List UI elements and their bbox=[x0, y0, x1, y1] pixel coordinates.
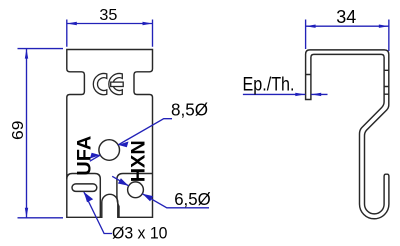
leader 6.5 NW tail bbox=[112, 176, 128, 186]
svg-text:Ep./Th.: Ep./Th. bbox=[243, 75, 295, 96]
left foot bend outline bbox=[67, 174, 101, 218]
8.5 leader arrow NE bbox=[118, 142, 128, 148]
side view hook profile bbox=[306, 50, 389, 219]
Ep./Th. arrow left bbox=[295, 93, 305, 96]
Ep./Th. arrow right bbox=[311, 93, 321, 96]
wall tick marks bbox=[306, 70, 389, 94]
dim 69 ext lines bbox=[18, 49, 64, 218]
6.5 leader arrow SE bbox=[142, 194, 153, 202]
right foot bend outline bbox=[117, 174, 153, 218]
8.5 leader arrow SW bbox=[90, 153, 100, 159]
arrowheads bbox=[25, 22, 389, 218]
svg-text:Ø3 x 10: Ø3 x 10 bbox=[112, 223, 168, 242]
hole 8.5 bbox=[99, 140, 120, 161]
svg-text:34: 34 bbox=[336, 6, 356, 27]
leader 8.5 NE bbox=[118, 119, 172, 145]
dim 69 line bbox=[26, 49, 28, 218]
dim 35 ext lines bbox=[67, 20, 153, 47]
leader slot bbox=[84, 192, 112, 234]
dim 34 ext lines bbox=[306, 20, 389, 52]
dim 35 arrow right bbox=[143, 22, 153, 25]
CE mark letter E bbox=[109, 74, 122, 95]
leader 6.5 SE bbox=[142, 194, 209, 208]
dim 34 line bbox=[306, 25, 389, 27]
leader 8.5 SW tail bbox=[90, 155, 101, 161]
svg-text:69: 69 bbox=[10, 120, 27, 140]
CE mark E bar bbox=[111, 82, 124, 86]
slot arrow bbox=[84, 192, 93, 202]
svg-text:35: 35 bbox=[99, 7, 117, 24]
dim 34 arrow right bbox=[379, 25, 389, 28]
6.5 leader arrow NW bbox=[118, 178, 129, 186]
dim 34 arrow left bbox=[306, 25, 316, 28]
dim 69 arrow bottom bbox=[25, 208, 28, 218]
hole 6.5 bbox=[128, 182, 144, 198]
CE mark letter C bbox=[93, 74, 106, 95]
svg-text:6,5Ø: 6,5Ø bbox=[174, 189, 211, 209]
Ep./Th. leaders bbox=[243, 93, 328, 95]
dim 35 line bbox=[67, 23, 153, 25]
svg-text:8,5Ø: 8,5Ø bbox=[171, 99, 208, 119]
dim 69 arrow top bbox=[25, 49, 28, 59]
svg-text:HXN: HXN bbox=[129, 140, 150, 182]
slot Ø3x10 bbox=[72, 184, 97, 192]
front view outline bbox=[67, 50, 153, 218]
dim 35 arrow left bbox=[67, 22, 77, 25]
